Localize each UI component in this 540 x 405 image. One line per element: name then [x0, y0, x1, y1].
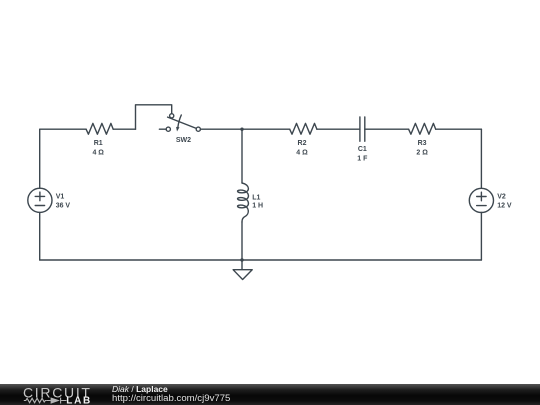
svg-text:4 Ω: 4 Ω — [296, 149, 308, 156]
svg-text:2 Ω: 2 Ω — [416, 149, 428, 156]
svg-text:1 F: 1 F — [357, 155, 368, 162]
svg-text:R2: R2 — [298, 140, 307, 147]
wire right rail upper — [480, 129, 482, 188]
wire right rail lower — [480, 213, 482, 261]
wire switch to R2 — [200, 128, 289, 130]
svg-text:SW2: SW2 — [176, 137, 191, 144]
voltage source V1 — [28, 188, 52, 212]
svg-text:C1: C1 — [358, 146, 367, 153]
resistor R1 — [86, 123, 113, 134]
wire R2 to C1 — [317, 128, 360, 130]
svg-text:R3: R3 — [418, 140, 427, 147]
wire R3 to right rail — [436, 128, 482, 130]
svg-text:12 V: 12 V — [497, 203, 512, 210]
switch SW2 — [159, 114, 200, 132]
footer meta text — [112, 385, 230, 403]
wire riser bypass to switch pole — [136, 105, 172, 129]
wire left rail top — [40, 129, 86, 188]
footer bar — [0, 384, 540, 405]
wire inductor branch upper — [241, 129, 243, 183]
svg-text:LAB: LAB — [66, 396, 92, 405]
svg-text:4 Ω: 4 Ω — [92, 149, 104, 156]
svg-text:R1: R1 — [94, 140, 103, 147]
resistor R3 — [409, 123, 436, 134]
voltage source V2 — [469, 188, 493, 212]
wire inductor branch lower — [241, 222, 243, 260]
wire left rail lower — [39, 212, 41, 260]
node junction bottom — [240, 258, 243, 261]
CircuitLab logo — [0, 384, 110, 405]
svg-text:36 V: 36 V — [56, 203, 71, 210]
resistor R2 — [290, 123, 317, 134]
wire C1 to R3 — [365, 128, 409, 130]
svg-text:V1: V1 — [56, 193, 65, 200]
svg-text:1 H: 1 H — [252, 202, 263, 209]
wire bottom rail — [40, 259, 482, 261]
capacitor C1 — [360, 117, 365, 141]
inductor L1 — [238, 183, 249, 222]
node junction top — [240, 128, 243, 131]
ground — [233, 260, 252, 280]
svg-text:L1: L1 — [252, 194, 260, 201]
svg-text:V2: V2 — [497, 193, 506, 200]
wire R1 to riser — [113, 128, 135, 130]
